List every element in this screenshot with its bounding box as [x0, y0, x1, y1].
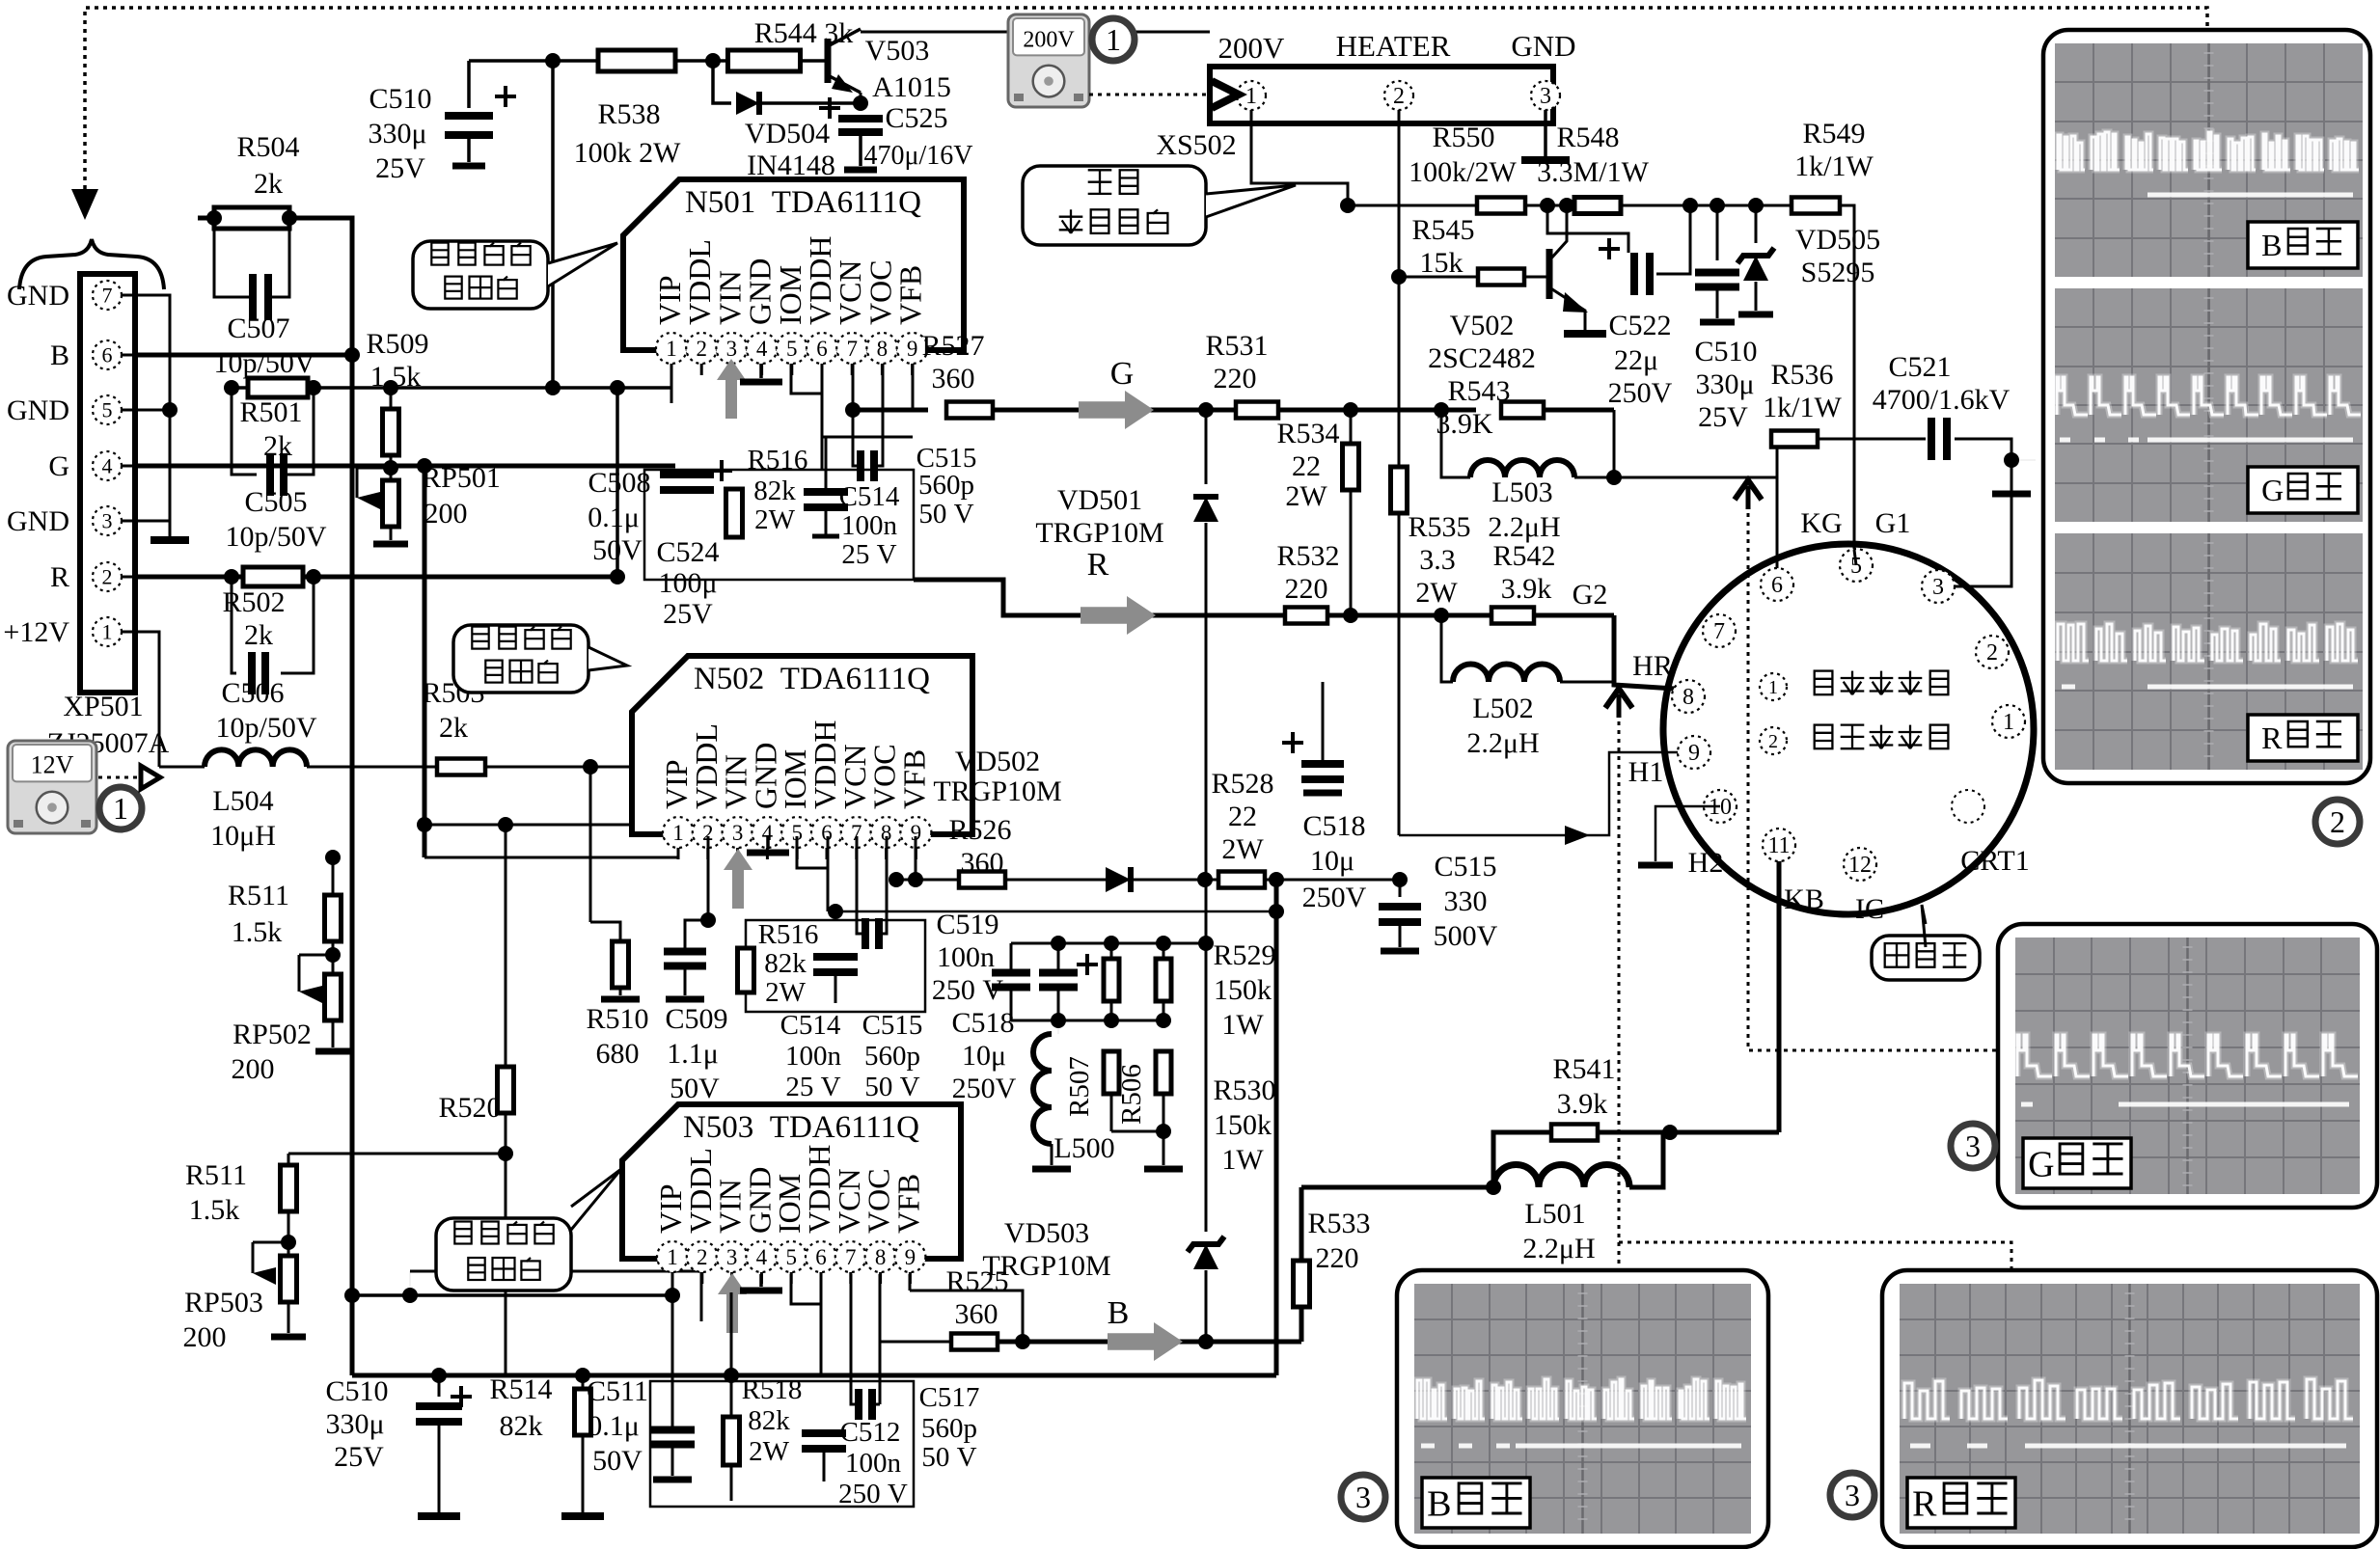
svg-text:G: G [48, 450, 69, 482]
svg-text:HEATER: HEATER [1336, 29, 1451, 63]
svg-text:1k/1W: 1k/1W [1794, 150, 1874, 182]
svg-text:TRGP10M: TRGP10M [933, 775, 1061, 807]
svg-text:0.1μ: 0.1μ [588, 1410, 640, 1442]
svg-text:1: 1 [1768, 677, 1778, 698]
svg-text:C511: C511 [587, 1375, 648, 1407]
svg-text:22: 22 [1228, 801, 1257, 832]
svg-text:C515: C515 [1434, 851, 1496, 883]
N502 pin4 ground [766, 836, 770, 849]
svg-text:1: 1 [102, 619, 113, 643]
wire 12V rail [307, 766, 437, 769]
CRT internal note line 1 [1760, 673, 1787, 700]
wire 12V rail branches [589, 767, 592, 922]
callout bubble final video amplifier (N503) [436, 1218, 571, 1291]
svg-text:100n: 100n [785, 1041, 842, 1072]
svg-text:2W: 2W [765, 977, 807, 1008]
svg-text:1k/1W: 1k/1W [1763, 392, 1842, 423]
IC N503 TDA6111Q body [622, 1104, 961, 1259]
svg-text:R526: R526 [948, 814, 1011, 846]
svg-text:L500: L500 [1053, 1132, 1114, 1164]
dotted measurement line top border [85, 8, 2207, 189]
svg-text:V502: V502 [1450, 310, 1515, 341]
wire heater H1 from XS502 pin2 [1399, 752, 1678, 835]
svg-text:12V: 12V [31, 750, 74, 778]
N503 pin4 ground [759, 1274, 763, 1287]
svg-text:3: 3 [1540, 84, 1551, 109]
component group box N501 [644, 470, 914, 580]
svg-text:VD503: VD503 [1004, 1217, 1089, 1249]
wire B output from N503 pin8 [879, 1274, 882, 1404]
svg-text:3.9k: 3.9k [1557, 1088, 1608, 1120]
svg-text:RP502: RP502 [233, 1019, 312, 1050]
ground at C521 node [2011, 460, 2013, 490]
N501 pin3 gray input arrow [717, 359, 746, 419]
wire C519 block top [1011, 942, 1206, 945]
svg-text:25V: 25V [1698, 401, 1748, 433]
svg-text:G1: G1 [1875, 507, 1911, 539]
svg-text:C515: C515 [862, 1010, 923, 1041]
svg-text:330: 330 [1444, 885, 1488, 917]
svg-text:R516: R516 [748, 445, 808, 476]
CRT1 pin 7 [1703, 614, 1736, 647]
svg-text:R506: R506 [1116, 1064, 1147, 1125]
svg-text:R510: R510 [586, 1003, 648, 1035]
svg-text:200: 200 [183, 1321, 227, 1353]
capacitor C517 560p 50V [851, 1379, 859, 1404]
svg-text:10μ: 10μ [962, 1040, 1006, 1072]
resistor R544 3k [728, 50, 801, 71]
capacitor C506 10p/50V [232, 577, 236, 673]
svg-text:C521: C521 [1888, 351, 1951, 383]
svg-text:L501: L501 [1524, 1198, 1585, 1230]
svg-text:9: 9 [905, 1245, 916, 1269]
dotted probe KG to G-waveform panel [1748, 513, 1998, 1050]
svg-text:G: G [2028, 1144, 2054, 1184]
svg-text:330μ: 330μ [368, 118, 426, 149]
IC N501 TDA6111Q body [623, 179, 964, 350]
potentiometer RP502 200 [332, 941, 335, 974]
svg-text:VFB: VFB [890, 1174, 925, 1234]
callout bubble DC supply voltage [1023, 166, 1206, 245]
wire R output bus [914, 580, 1285, 615]
svg-text:R535: R535 [1408, 511, 1470, 543]
svg-text:2: 2 [1393, 84, 1405, 109]
oscillogram panel group (marker 2) [2043, 30, 2370, 783]
svg-text:7: 7 [845, 1245, 857, 1269]
svg-text:XP501: XP501 [63, 691, 143, 722]
svg-text:8: 8 [877, 337, 889, 361]
svg-text:200V: 200V [1218, 31, 1286, 65]
svg-text:250V: 250V [952, 1073, 1017, 1104]
svg-text:C506: C506 [221, 677, 284, 709]
svg-text:100n: 100n [937, 941, 995, 973]
svg-text:25 V: 25 V [841, 539, 896, 570]
inductor L500 [1033, 1034, 1052, 1144]
svg-text:KB: KB [1784, 883, 1824, 915]
oscillogram photo G waveform (middle) [2055, 288, 2363, 522]
svg-text:0.1μ: 0.1μ [588, 502, 640, 533]
svg-text:C514: C514 [839, 481, 900, 512]
svg-text:100k/2W: 100k/2W [1409, 156, 1517, 188]
XS502 pin 2 [1384, 81, 1413, 110]
svg-text:50 V: 50 V [864, 1072, 919, 1102]
wire L501 to R541 node [1629, 1132, 1663, 1187]
svg-text:C525: C525 [885, 102, 947, 134]
svg-text:25V: 25V [663, 598, 713, 630]
svg-text:R509: R509 [366, 328, 428, 360]
CRT internal note line 2 [1760, 727, 1787, 754]
N503 pin3 gray input arrow [718, 1273, 747, 1333]
svg-text:10μ: 10μ [1310, 845, 1354, 877]
svg-text:11: 11 [1767, 833, 1790, 858]
wire 200V supply bus [1341, 204, 1476, 207]
inductor L502 2.2uH [1441, 615, 1453, 682]
svg-text:6: 6 [815, 1245, 827, 1269]
svg-text:N501 TDA6111Q: N501 TDA6111Q [685, 185, 921, 220]
svg-text:9: 9 [907, 337, 918, 361]
svg-text:XS502: XS502 [1156, 129, 1236, 161]
wire R riser to top row [616, 388, 619, 577]
svg-text:15k: 15k [1420, 247, 1464, 279]
svg-text:2k: 2k [244, 619, 273, 651]
capacitor C525 470u 16V [859, 103, 862, 110]
resistor R516 82k 2W (N501) [726, 489, 743, 537]
capacitor C515 560p 50V (N501) [822, 436, 913, 439]
capacitor C522 22u 250V [1547, 205, 1628, 253]
svg-text:B: B [1427, 1483, 1451, 1524]
wire R input from XP501 pin2 [135, 575, 617, 580]
wire from top rail down [551, 61, 555, 388]
CRT1 unlabeled pin [1952, 790, 1984, 823]
svg-text:100n: 100n [841, 510, 898, 541]
callout bubble CRT (display tube) [1872, 936, 1980, 980]
svg-text:C514: C514 [780, 1010, 841, 1041]
svg-text:5: 5 [785, 1245, 797, 1269]
wire heater H2 ground [1655, 806, 1720, 861]
XS502 pin 3 [1531, 81, 1560, 110]
svg-text:R531: R531 [1205, 330, 1268, 362]
diode VD504 IN4148 [713, 61, 731, 103]
voltmeter icon 12V [8, 741, 96, 833]
svg-text:100k 2W: 100k 2W [574, 137, 682, 169]
svg-text:2: 2 [102, 564, 113, 588]
R signal gray arrow [1081, 596, 1156, 635]
svg-text:A1015: A1015 [872, 71, 951, 103]
capacitor C507 10p/50V [214, 218, 253, 297]
svg-text:R504: R504 [236, 131, 299, 163]
callout bubble final video amplifier (N501) [413, 241, 548, 309]
svg-text:1.5k: 1.5k [370, 361, 422, 393]
capacitor C514 100n 25V (N501) [825, 437, 828, 490]
svg-text:2: 2 [1768, 731, 1778, 752]
svg-text:7: 7 [846, 337, 858, 361]
svg-text:82k: 82k [500, 1410, 543, 1442]
CRT1 pin 11 [1763, 829, 1795, 861]
svg-text:R529: R529 [1213, 939, 1275, 971]
voltmeter icon 200V [1008, 14, 1089, 107]
svg-text:G: G [1110, 356, 1135, 392]
svg-text:B: B [50, 340, 69, 371]
wire bus to L501 [1301, 1185, 1493, 1190]
svg-text:10p/50V: 10p/50V [216, 712, 317, 744]
oscillogram photo B waveform (top) [2055, 43, 2363, 277]
svg-text:C518: C518 [1302, 810, 1365, 842]
svg-text:3: 3 [726, 337, 738, 361]
svg-text:250 V: 250 V [838, 1479, 908, 1509]
svg-text:B: B [2261, 228, 2282, 262]
CRT tube CRT1 envelope circle [1663, 544, 2034, 914]
svg-text:C524: C524 [656, 536, 719, 568]
circled 3 marker (G) [1951, 1124, 1995, 1168]
N501 pin4 ground [759, 364, 763, 378]
resistor pair upper (R506 branch) [1163, 943, 1165, 959]
wire B row to N503 pin1 [344, 1288, 360, 1303]
svg-text:2W: 2W [1285, 480, 1327, 512]
CRT1 pin 6 [1761, 568, 1793, 601]
svg-text:H1: H1 [1628, 756, 1664, 788]
svg-text:2: 2 [696, 337, 707, 361]
svg-text:R550: R550 [1432, 122, 1494, 153]
svg-text:3.3M/1W: 3.3M/1W [1537, 156, 1650, 188]
svg-text:12: 12 [1848, 853, 1872, 878]
svg-text:3: 3 [1965, 1128, 1981, 1163]
CRT1 pin 9 [1678, 736, 1710, 769]
svg-text:220: 220 [1214, 363, 1257, 394]
svg-text:TRGP10M: TRGP10M [982, 1250, 1110, 1282]
svg-text:R511: R511 [228, 880, 289, 911]
wire C519 block mid [1011, 1019, 1163, 1022]
wire G output bus [853, 408, 928, 413]
svg-text:8: 8 [875, 1245, 887, 1269]
wires N503 pins down [700, 1274, 703, 1321]
svg-text:200: 200 [424, 498, 468, 530]
svg-text:CRT1: CRT1 [1960, 845, 2030, 877]
svg-text:R: R [50, 561, 69, 593]
svg-text:2: 2 [1986, 640, 1998, 666]
CRT1 pin 12 [1844, 848, 1876, 881]
svg-text:360: 360 [955, 1298, 999, 1330]
svg-text:6: 6 [816, 337, 828, 361]
oscillogram photo R waveform (bottom) [2055, 533, 2363, 770]
svg-text:5: 5 [786, 337, 798, 361]
svg-text:C510: C510 [1694, 336, 1757, 367]
wire XP501 ground pins [135, 295, 170, 521]
svg-text:C519: C519 [936, 909, 999, 940]
KG probe arrow [1746, 486, 1751, 509]
svg-text:6: 6 [1771, 573, 1783, 598]
svg-text:4: 4 [756, 1245, 768, 1269]
svg-text:50 V: 50 V [921, 1442, 976, 1473]
svg-text:R548: R548 [1556, 122, 1619, 153]
oscillogram panel G waveform photo [1998, 924, 2377, 1208]
svg-text:GND: GND [7, 394, 69, 426]
CRT1 pin 3 [1922, 570, 1955, 603]
svg-text:4: 4 [756, 337, 768, 361]
svg-text:1: 1 [2003, 710, 2014, 735]
svg-text:S5295: S5295 [1801, 257, 1875, 288]
svg-text:50 V: 50 V [918, 499, 973, 530]
wire C521 node to CRT pin3 [2011, 459, 2036, 461]
svg-text:100n: 100n [845, 1448, 902, 1479]
svg-text:82k: 82k [748, 1405, 790, 1436]
svg-text:C522: C522 [1608, 310, 1671, 341]
N502 pin5 wire [797, 836, 828, 868]
svg-text:N503 TDA6111Q: N503 TDA6111Q [683, 1110, 919, 1145]
svg-text:L503: L503 [1491, 476, 1552, 508]
svg-text:3.3: 3.3 [1419, 544, 1456, 576]
svg-text:R518: R518 [742, 1374, 803, 1405]
inductor L501 2.2uH [1493, 1165, 1629, 1188]
svg-text:3: 3 [1355, 1480, 1371, 1514]
svg-text:N502 TDA6111Q: N502 TDA6111Q [694, 662, 930, 696]
wire G1 pin5 [1854, 550, 1856, 565]
svg-text:150k: 150k [1214, 974, 1272, 1006]
svg-text:4700/1.6kV: 4700/1.6kV [1873, 384, 2011, 416]
svg-text:6: 6 [102, 342, 113, 367]
wire G row to N502 pin1 [424, 856, 678, 859]
svg-text:1: 1 [672, 821, 684, 845]
svg-text:1: 1 [667, 1245, 678, 1269]
svg-text:R536: R536 [1770, 359, 1833, 391]
svg-text:2W: 2W [1415, 577, 1458, 609]
svg-text:R532: R532 [1276, 540, 1339, 572]
wire bottom bus [352, 1373, 1276, 1378]
resistor R518 82k 2W [730, 1375, 733, 1419]
svg-text:25 V: 25 V [785, 1072, 840, 1102]
svg-text:22μ: 22μ [1614, 344, 1658, 376]
svg-text:R533: R533 [1307, 1208, 1370, 1239]
svg-text:VD501: VD501 [1057, 484, 1142, 516]
svg-text:220: 220 [1285, 573, 1328, 605]
XS502 pin 1 [1237, 81, 1266, 110]
svg-text:1.5k: 1.5k [189, 1194, 240, 1226]
N502 pin3 gray input arrow [724, 849, 752, 909]
svg-text:10p/50V: 10p/50V [214, 347, 315, 379]
svg-text:C510: C510 [369, 83, 431, 115]
svg-text:22: 22 [1292, 450, 1321, 482]
svg-text:R545: R545 [1411, 214, 1474, 246]
capacitor C515 330 500V [1399, 880, 1402, 897]
svg-text:330μ: 330μ [1695, 368, 1754, 400]
wire N503 pin9 feedback loop [910, 1291, 1023, 1342]
svg-text:V503: V503 [865, 35, 930, 67]
svg-text:VFB: VFB [896, 749, 931, 809]
G signal gray arrow [1079, 391, 1154, 429]
svg-text:560p: 560p [918, 470, 974, 501]
svg-text:R: R [2261, 720, 2283, 755]
svg-text:560p: 560p [864, 1041, 920, 1072]
svg-text:3: 3 [102, 508, 113, 532]
svg-text:C508: C508 [588, 467, 650, 499]
XS502 pin3 ground [1544, 110, 1547, 156]
resistor R516 82k 2W (N502) [738, 948, 754, 992]
svg-text:R544 3k: R544 3k [754, 17, 854, 49]
wire R row to N501 pin1 [232, 386, 671, 390]
brace over connector XP501 [19, 239, 164, 289]
svg-text:200: 200 [232, 1053, 275, 1085]
svg-text:2k: 2k [439, 712, 468, 744]
svg-text:82k: 82k [753, 476, 796, 506]
circled 3 marker (R) [1830, 1473, 1874, 1517]
svg-text:KG: KG [1800, 507, 1842, 539]
svg-text:R507: R507 [1064, 1056, 1095, 1117]
svg-text:1W: 1W [1221, 1009, 1264, 1041]
svg-text:VD505: VD505 [1795, 224, 1880, 256]
svg-text:R: R [1087, 547, 1109, 583]
svg-text:VFB: VFB [893, 265, 928, 325]
CRT1 pin 2 [1976, 636, 2009, 668]
svg-text:200V: 200V [1023, 27, 1075, 52]
svg-text:10μH: 10μH [210, 820, 276, 852]
svg-text:250V: 250V [1608, 377, 1673, 409]
svg-text:R549: R549 [1802, 118, 1865, 149]
svg-text:25V: 25V [375, 152, 425, 184]
svg-text:R516: R516 [758, 919, 819, 950]
svg-text:2SC2482: 2SC2482 [1428, 342, 1536, 374]
svg-text:3: 3 [726, 1245, 738, 1269]
svg-text:9: 9 [1688, 741, 1700, 766]
svg-text:R542: R542 [1492, 540, 1555, 572]
svg-text:10p/50V: 10p/50V [226, 521, 327, 553]
component group box N502 [746, 920, 925, 1012]
potentiometer RP501 200 [390, 455, 393, 480]
capacitor C515 560p 50V (N502) [857, 907, 865, 934]
svg-text:HR: HR [1632, 650, 1673, 682]
circled 1 marker [99, 787, 142, 829]
transistor V503 A1015 (PNP) [825, 39, 832, 83]
resistor R543 3.9K on G line [1501, 402, 1544, 419]
wire R504 into column [347, 218, 352, 355]
svg-text:C505: C505 [244, 486, 307, 518]
XS502 pin2 heater wire down [1398, 110, 1401, 835]
ground for XP501 GND pins [150, 536, 189, 544]
wire KB from CRT pin11 [1777, 845, 1782, 1132]
CRT1 pin 5 [1840, 549, 1873, 582]
svg-text:+12V: +12V [3, 616, 69, 648]
svg-text:150k: 150k [1214, 1109, 1272, 1141]
svg-text:R: R [1912, 1483, 1937, 1524]
svg-text:1: 1 [666, 337, 677, 361]
svg-text:TRGP10M: TRGP10M [1035, 517, 1163, 549]
svg-text:1: 1 [113, 791, 128, 826]
svg-text:GND: GND [7, 280, 69, 312]
wire B input from XP501 pin6 [135, 353, 347, 358]
svg-text:C512: C512 [840, 1417, 901, 1448]
callout bubble final video amplifier (N502) [453, 625, 588, 693]
svg-text:2: 2 [2330, 804, 2345, 839]
connector XS502 body [1210, 67, 1553, 123]
svg-text:8: 8 [1682, 685, 1694, 710]
inductor L503 2.2uH with R543 parallel [1441, 410, 1470, 477]
dotted probe HR to waveform panels [1619, 721, 2011, 1270]
svg-text:25V: 25V [334, 1441, 384, 1473]
resistor R506 [1156, 1051, 1171, 1094]
oscillogram panel B waveform photo [1397, 1270, 1768, 1547]
svg-text:L504: L504 [212, 785, 273, 817]
component group box N503 [650, 1381, 914, 1507]
svg-text:7: 7 [1713, 619, 1725, 644]
svg-text:R538: R538 [597, 98, 660, 130]
wire G to KG node [1614, 476, 1777, 479]
potentiometer RP503 200 [287, 1211, 290, 1260]
capacitor C510 (top right) 330u 25V [1716, 205, 1719, 260]
CRT1 pin 8 [1672, 680, 1705, 713]
svg-text:50V: 50V [592, 534, 643, 566]
svg-text:100μ: 100μ [658, 567, 717, 599]
svg-text:R520: R520 [438, 1092, 501, 1124]
svg-text:82k: 82k [764, 948, 807, 979]
wire VOC row [835, 910, 1276, 913]
